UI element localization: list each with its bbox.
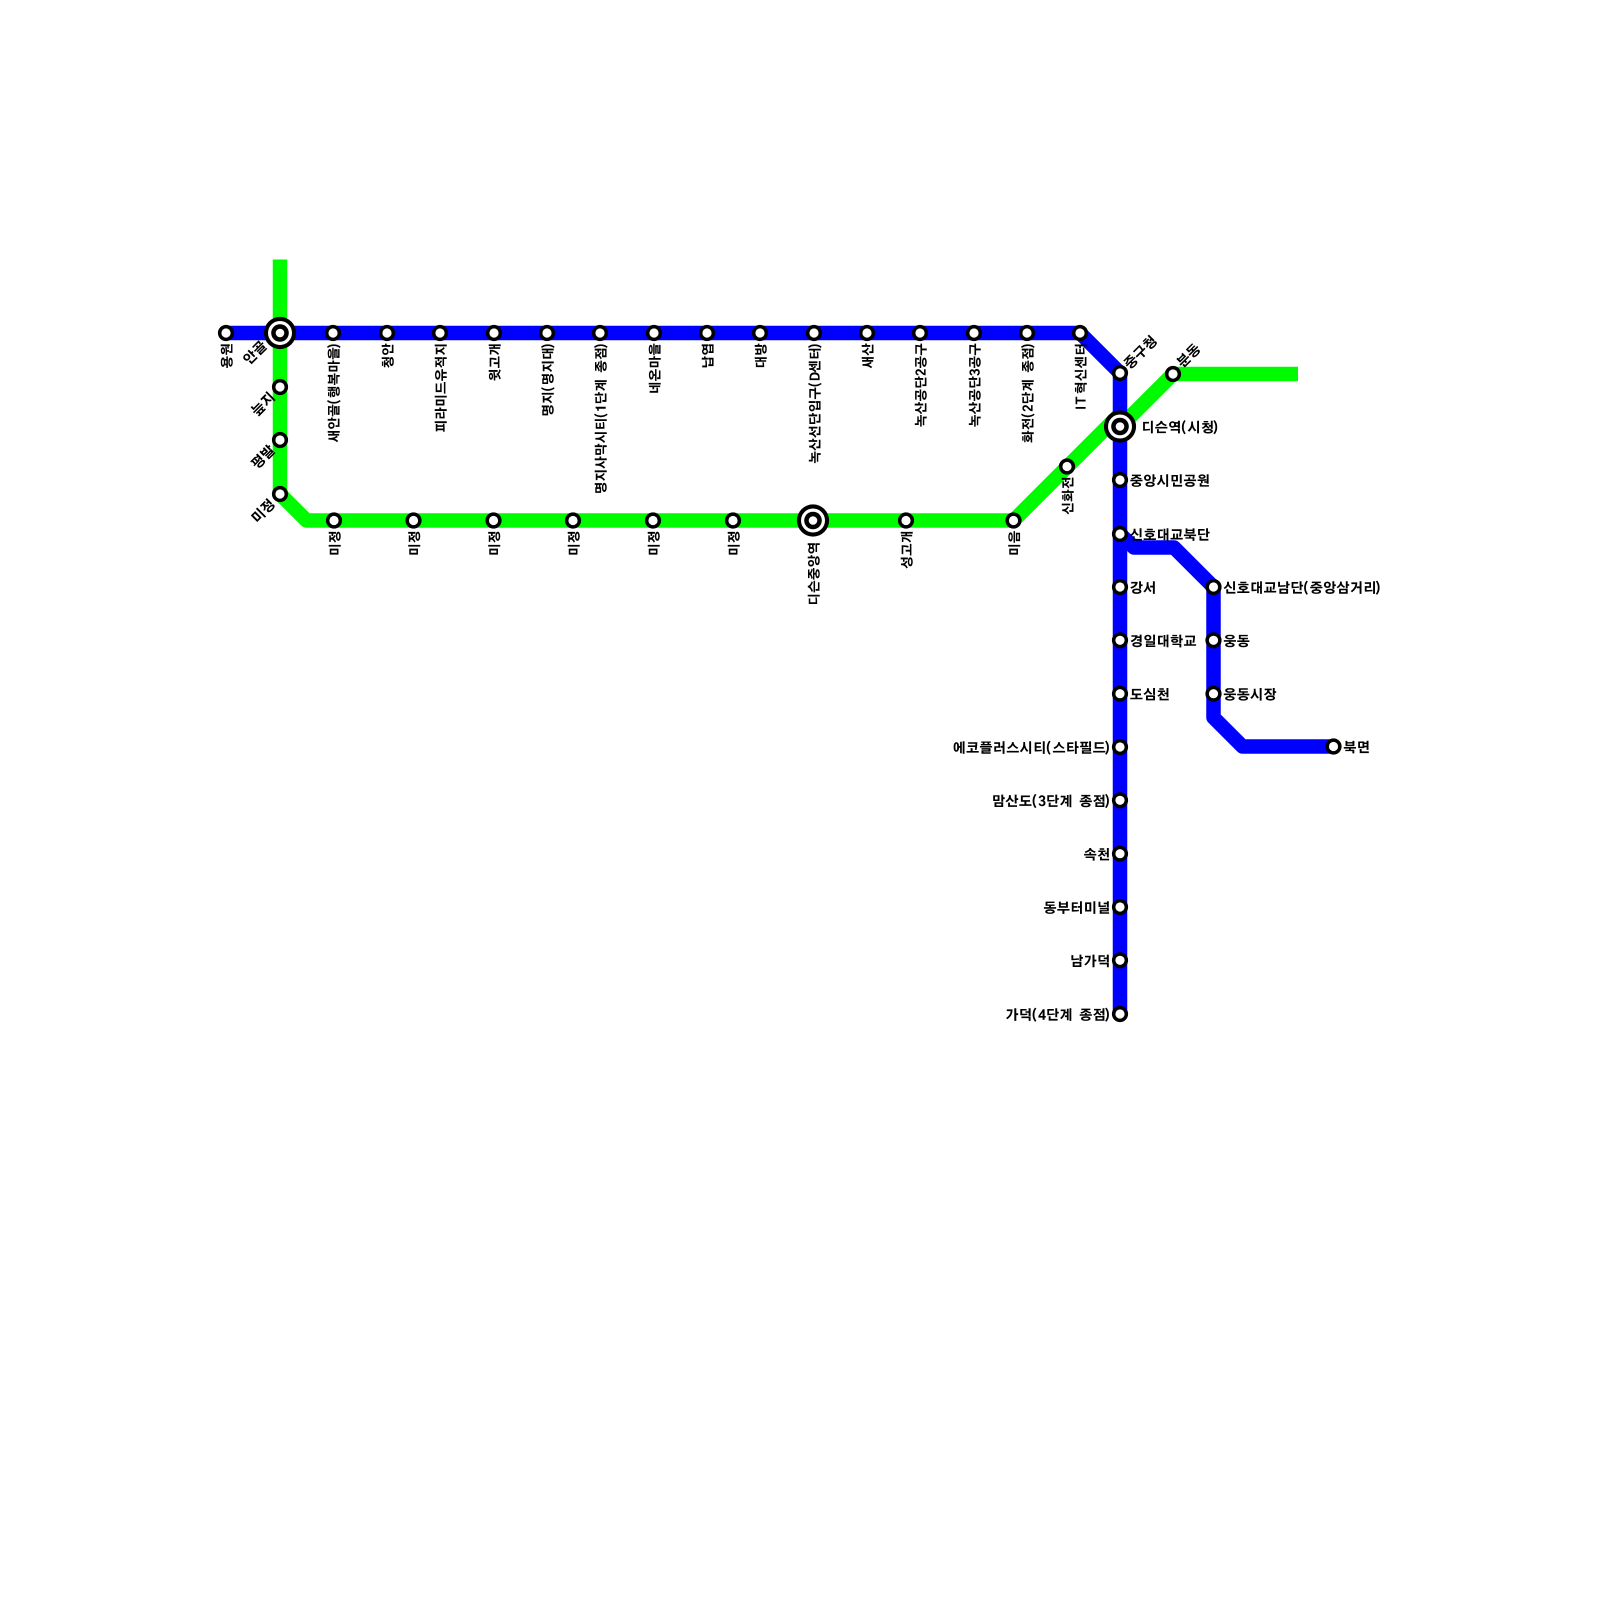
label 용원 [221,344,233,368]
station 신화전 [1059,458,1075,474]
transfer station 안골 [264,317,296,349]
label 미정 [568,532,580,555]
blue line 1 branch [1120,534,1334,747]
station 녹산선단입구(D센터) [806,325,822,341]
label 분동 [1175,342,1202,369]
label 동부터미널 [1044,901,1109,914]
station 대방 [752,325,768,341]
station 용원 [218,325,234,341]
transfer station 디슨중앙역 [797,504,829,536]
label 에코플러스시티(스타필드) [954,741,1109,755]
station 경일대학교 [1112,632,1128,648]
label 미정 [728,532,740,555]
label 새안골(행복마을) [327,344,341,442]
station 미정 [405,512,421,528]
label 맘산도(3단계 종점) [993,794,1109,808]
label 웅동 [1224,635,1250,648]
station 미정 [272,486,288,502]
station 맘산도(3단계 종점) [1112,792,1128,808]
station 동부터미널 [1112,899,1128,915]
label 피라미드유적지 [435,345,447,432]
green line 2 east [1120,374,1298,427]
station 성고개 [898,512,914,528]
label 경일대학교 [1131,635,1197,648]
station 북면 [1325,738,1341,754]
blue line 1 main [226,333,1120,1014]
station 강서 [1112,579,1128,595]
station 미정 [485,512,501,528]
station 새안골(행복마을) [325,325,341,341]
station 가덕(4단계 종점) [1112,1006,1128,1022]
station 명지사막시티(1단계 종점) [592,325,608,341]
station 분동 [1165,366,1181,382]
label 가덕(4단계 종점) [1006,1008,1109,1022]
station 미정 [565,512,581,528]
label IT혁신센터 [1075,345,1087,409]
station 명지(명지대) [539,325,555,341]
label 웅동시장 [1224,688,1276,701]
label 성고개 [901,532,913,569]
label 대방 [755,344,767,368]
station 녹산공단3공구 [966,325,982,341]
label 새산 [862,343,874,368]
station 화전(2단계 종점) [1019,325,1035,341]
station 중앙시민공원 [1112,472,1128,488]
label 강서 [1130,581,1155,594]
label 녹산선단입구(D센터) [808,344,822,463]
station 에코플러스시티(스타필드) [1112,739,1128,755]
station 도심천 [1112,686,1128,702]
label 디슨중앙역 [808,543,820,604]
label 중앙시민공원 [1130,474,1209,487]
label 윗고개 [489,344,501,380]
station 웅동시장 [1205,686,1221,702]
station 속천 [1112,846,1128,862]
station 미정 [725,512,741,528]
label 명지사막시티(1단계 종점) [594,344,608,493]
station 청안 [379,325,395,341]
station 피라미드유적지 [432,325,448,341]
label 녹산공단2공구 [915,344,927,427]
station 미음 [1005,512,1021,528]
label 신화전 [1062,478,1074,515]
station 납엽 [699,325,715,341]
label 미음 [1008,531,1020,554]
station 웅동 [1205,632,1221,648]
station 윗고개 [486,325,502,341]
station 녹산공단2공구 [912,325,928,341]
transfer station 디슨역(시청) [1104,410,1136,442]
station 신호대교북단 [1112,526,1128,542]
station IT혁신센터 [1072,325,1088,341]
label 미정 [329,532,341,555]
label 늪지 [249,391,275,417]
label 청안 [382,344,394,368]
label 중구청 [1122,334,1158,370]
label 미정 [648,532,660,555]
label 네온마을 [649,344,661,393]
label 남가덕 [1071,955,1108,968]
station 늪지 [272,379,288,395]
label 납엽 [702,344,714,367]
label 평발 [250,443,277,470]
station 평발 [272,432,288,448]
station 신호대교남단(중앙삼거리) [1205,579,1221,595]
label 녹산공단3공구 [969,344,981,427]
label 도심천 [1130,688,1168,700]
station 중구청 [1112,365,1128,381]
label 북면 [1344,741,1369,754]
label 속천 [1084,848,1109,861]
station 남가덕 [1112,952,1128,968]
label 신호대교북단 [1130,528,1210,541]
label 미정 [488,532,500,555]
label 명지(명지대) [541,344,555,415]
green line 2 main [280,260,1120,521]
station 미정 [645,512,661,528]
label 미정 [250,498,276,524]
label 신호대교남단(중앙삼거리) [1224,581,1380,595]
station 새산 [859,325,875,341]
label 미정 [408,532,420,555]
label 화전(2단계 종점) [1021,344,1035,442]
station 미정 [326,512,342,528]
label 안골 [242,339,269,366]
label 디슨역(시청) [1143,420,1217,434]
station 네온마을 [646,325,662,341]
